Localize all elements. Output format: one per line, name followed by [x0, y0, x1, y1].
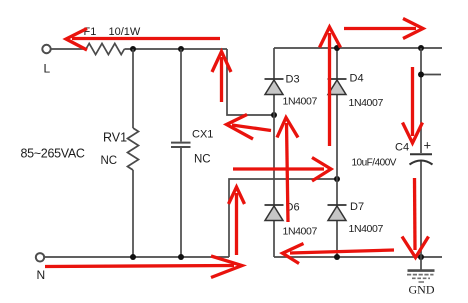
- bridge top rail (DC+): [274, 47, 442, 49]
- current flow arrow A: top rail pointing left: [66, 29, 220, 51]
- terminal N: [36, 253, 44, 261]
- wire N bottom rail: [45, 256, 230, 258]
- svg-text:1N4007: 1N4007: [349, 223, 384, 235]
- junction node AC2 on bridge middle column: [334, 176, 340, 182]
- current flow arrow D: up through D3 column: [277, 118, 298, 223]
- capacitor C4: [410, 48, 433, 257]
- wire L to fuse: [51, 48, 86, 50]
- bridge bottom rail (DC-): [274, 256, 442, 258]
- terminal L: [42, 45, 50, 53]
- svg-text:1N4007: 1N4007: [349, 97, 384, 109]
- svg-text:NC: NC: [194, 154, 211, 166]
- junction top of RV1: [130, 46, 136, 52]
- junction node AC1 on bridge left column: [271, 112, 277, 118]
- svg-text:10/1W: 10/1W: [109, 26, 141, 38]
- junction top of D4: [334, 45, 340, 51]
- svg-text:N: N: [37, 268, 46, 282]
- current flow arrow K: right along N rail: [45, 256, 242, 278]
- current flow arrow I: down to ground node: [402, 178, 429, 258]
- current flow arrow G: right along top rail to C4: [344, 19, 423, 39]
- current flow arrow J: left along bottom rail: [283, 244, 395, 264]
- junction bottom of RV1: [130, 254, 136, 260]
- current flow arrow F: right along AC2 line: [233, 158, 331, 182]
- svg-text:GND: GND: [409, 283, 435, 297]
- svg-text:85~265VAC: 85~265VAC: [21, 147, 85, 161]
- junction top of CX1: [178, 46, 184, 52]
- diode D3: [265, 79, 284, 95]
- varistor RV1: [128, 49, 139, 257]
- svg-text:C4: C4: [395, 142, 409, 154]
- junction bottom of D7: [334, 254, 340, 260]
- wire step down to AC1 line: [227, 49, 274, 115]
- current flow arrow C: left into AC1 node: [227, 115, 272, 140]
- svg-text:1N4007: 1N4007: [283, 96, 318, 108]
- bridge left column wire (D3/D6): [273, 48, 275, 257]
- junction bottom of C4 / ground node: [418, 254, 424, 260]
- svg-text:D7: D7: [350, 201, 364, 213]
- junction output tap: [418, 72, 424, 78]
- junction top of C4: [418, 45, 424, 51]
- ground GND: [407, 257, 435, 282]
- diode D6: [265, 205, 284, 221]
- svg-text:L: L: [44, 62, 51, 76]
- svg-text:NC: NC: [101, 155, 118, 167]
- svg-text:CX1: CX1: [192, 129, 213, 141]
- diode D4: [328, 79, 347, 95]
- svg-text:10uF/400V: 10uF/400V: [352, 158, 397, 169]
- current flow arrow H: down into C4: [403, 67, 423, 143]
- wire output tap at DC+ mid: [421, 74, 441, 76]
- fuse F1: [86, 44, 124, 55]
- svg-text:+: +: [424, 138, 432, 153]
- svg-text:RV1: RV1: [103, 131, 127, 145]
- svg-text:D3: D3: [286, 74, 300, 86]
- svg-text:D4: D4: [350, 73, 364, 85]
- svg-text:1N4007: 1N4007: [283, 226, 318, 238]
- current flow arrow B: up into top step wire: [212, 52, 231, 103]
- current flow arrow L: up through bottom step wire: [229, 187, 245, 255]
- capacitor CX1: [171, 49, 191, 257]
- current flow arrow E: up through D4 column: [320, 27, 341, 146]
- diode D7: [328, 205, 347, 221]
- bridge middle column wire (D4/D7): [336, 48, 338, 257]
- wire step up to AC2 line: [229, 179, 337, 257]
- junction bottom of CX1: [178, 254, 184, 260]
- wire fuse to step-down corner: [124, 48, 227, 50]
